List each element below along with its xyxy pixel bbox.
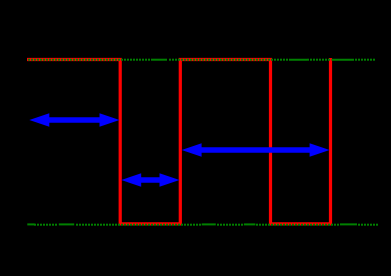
low level dotted line (ymin) (27, 224, 378, 226)
low time arrow (small, double headed) (121, 173, 179, 186)
high level dotted line (ymax) (28, 59, 375, 61)
period arrow (long, double headed) (182, 143, 330, 156)
pulse width arrow (left, double headed) (29, 113, 119, 126)
square wave (red pulse train) (27, 58, 331, 224)
